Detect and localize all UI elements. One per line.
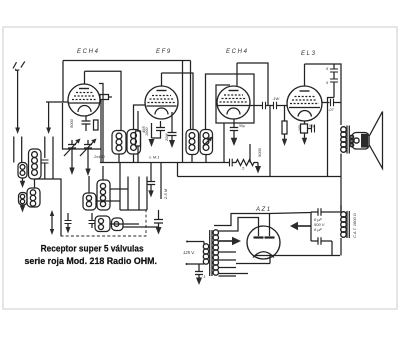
resistor grid EL3 <box>282 106 287 147</box>
wire plate EF9 to IF2 <box>162 73 194 130</box>
svg-text:v. M.1: v. M.1 <box>149 155 160 160</box>
wire box corner to bus <box>100 149 102 163</box>
wire tone to bus <box>328 98 335 177</box>
osc coil C <box>95 216 110 232</box>
ground arrow EF9 screen <box>169 140 175 148</box>
wire filter to B+ <box>331 241 333 256</box>
capacitor filter top <box>311 208 341 216</box>
svg-text:2x450: 2x450 <box>93 154 106 159</box>
ground arrow below L1b <box>20 178 25 188</box>
resistor 25M drop <box>161 163 168 201</box>
speaker cone <box>369 112 383 169</box>
tube EF9 U2 <box>145 73 178 119</box>
wire to EL3 grid <box>277 105 288 107</box>
svg-text:·1: ·1 <box>202 274 206 279</box>
tube ECH4 U1 <box>68 71 100 116</box>
coupling coil L2b <box>19 193 28 206</box>
resistor under ECH4 no1 <box>94 120 99 130</box>
wire IF2 bottoms <box>192 155 206 163</box>
svg-text:.1W: .1W <box>272 96 280 101</box>
wires switch verticals <box>120 163 147 211</box>
wire IF1 secondary to EF9 grid <box>134 105 146 130</box>
heater bus line <box>236 256 270 264</box>
wire field coil top <box>340 205 342 212</box>
wire transformer bottom drop <box>340 154 342 213</box>
capacitor on bus <box>230 159 233 167</box>
resistor R detector <box>232 160 258 166</box>
voice coil <box>350 135 354 147</box>
wire plate EL3 <box>322 102 330 104</box>
svg-text:E C H 4: E C H 4 <box>226 49 248 55</box>
wire anode 1 staircase <box>214 214 270 228</box>
potentiometer arrow <box>50 210 54 235</box>
capacitor sw2 <box>89 213 96 228</box>
wire L1-L2 link <box>34 179 36 188</box>
wires switch horizontals <box>96 189 159 227</box>
wire screen drop ECH4 no2 <box>223 123 225 163</box>
power transformer T1 <box>203 230 218 276</box>
speaker magnet pot <box>352 133 369 150</box>
osc coil B <box>97 180 110 210</box>
svg-text:E L 3: E L 3 <box>301 51 316 57</box>
wire avc long riser <box>182 61 184 163</box>
wire grid box ECH4 no2 <box>206 74 255 130</box>
tube AZ1 U5 rectifier <box>247 226 280 259</box>
tube EL3 U4 <box>287 64 322 121</box>
ground arrow ECH4 no2 cathode <box>231 138 238 146</box>
field coil choke <box>341 211 350 238</box>
variable capacitor CV2 <box>80 139 97 157</box>
svg-text:E C H 4: E C H 4 <box>77 49 99 55</box>
wire grid cap ECH4 no2 <box>237 63 268 106</box>
bus B+ return line <box>178 176 342 178</box>
filter box left wire <box>310 212 312 241</box>
cathode RC EL3 <box>298 121 315 145</box>
capacitor avc left <box>147 163 155 198</box>
wire field coil bottom <box>340 238 342 256</box>
wire avc drop <box>99 84 103 163</box>
capacitor coupling Cb <box>274 102 277 109</box>
capacitor cathode ECH4 no2 <box>230 119 245 138</box>
wire band switch feed <box>35 179 62 236</box>
wire IF1 bottoms to bus <box>119 154 134 163</box>
ground arrow below CV2 <box>85 152 90 176</box>
capacitor tone 1 <box>326 64 338 79</box>
output transformer T2 <box>341 126 350 154</box>
IF transformer 2 primary <box>186 130 199 155</box>
wire plate to transformer <box>334 102 342 104</box>
svg-text:50μ: 50μ <box>239 124 245 128</box>
svg-text:C A T. 1800 Ω: C A T. 1800 Ω <box>352 213 357 238</box>
IF transformer 1 secondary <box>127 130 141 155</box>
svg-text:5000: 5000 <box>257 147 262 157</box>
wire bus riser left <box>177 163 179 177</box>
wire detector node riser <box>269 106 271 177</box>
osc coil A <box>83 193 96 210</box>
mains input top <box>186 241 204 243</box>
svg-text:E F 9: E F 9 <box>156 49 171 55</box>
wire heater tap ends <box>219 275 237 277</box>
mains input bottom <box>186 263 205 265</box>
wire osc coil feeds <box>89 166 103 193</box>
wire top EL3 to output transformer <box>305 64 342 125</box>
resistor R osc grid <box>100 95 112 100</box>
wire B+ line <box>255 255 340 257</box>
capacitor sw1 <box>65 213 72 234</box>
svg-text:160: 160 <box>298 125 302 131</box>
capacitor mains <box>195 264 206 285</box>
svg-text:50μ: 50μ <box>309 124 315 128</box>
wire anode to filter top <box>270 213 312 214</box>
coupling coil L1b <box>18 163 27 179</box>
wire grid ECH4 no1 <box>46 101 69 103</box>
wire antenna pad drop with arrow <box>45 102 53 179</box>
capacitor padder C1 <box>41 160 49 179</box>
svg-text:5000: 5000 <box>69 118 74 128</box>
wire between caps <box>266 105 274 107</box>
capacitor screen EF9 <box>165 112 177 142</box>
ground arrow EF9 cathode <box>149 139 155 147</box>
antenna coil L1 <box>29 149 42 179</box>
capacitor cathode EF9 <box>152 121 166 138</box>
svg-text:A Z 1: A Z 1 <box>255 207 270 213</box>
ground arrow detector <box>255 163 261 174</box>
svg-text:-07: -07 <box>328 107 335 112</box>
wire top bus to ECH4 grid <box>63 61 191 130</box>
capacitor plate EL3 <box>331 99 334 106</box>
capacitor filter bottom <box>311 237 332 245</box>
svg-text:125 V.: 125 V. <box>183 250 195 255</box>
svg-text:8 μF: 8 μF <box>314 227 323 232</box>
svg-text:serie roja Mod. 218 Radio OHM.: serie roja Mod. 218 Radio OHM. <box>25 256 158 267</box>
svg-text:2-5 M: 2-5 M <box>163 188 168 200</box>
osc coil D <box>112 218 124 231</box>
dashed band switch box <box>61 210 146 237</box>
IF transformer 2 secondary <box>200 130 213 155</box>
box around converter section <box>63 99 102 149</box>
heater arrow <box>219 237 242 245</box>
secondary taps <box>219 252 249 274</box>
svg-text:Receptor super 5 válvulas: Receptor super 5 válvulas <box>41 244 144 255</box>
capacitor tone 2 <box>326 79 338 98</box>
ground arrow below L2b <box>20 205 25 213</box>
osc band coil L2 <box>27 188 40 207</box>
ground arrow below CV1 <box>69 152 74 175</box>
variable capacitor CV1 <box>64 139 81 157</box>
wire plate out ECH4 no2 <box>250 105 262 107</box>
wire detector load drop <box>249 144 251 163</box>
tube ECH4 U3 <box>217 63 250 119</box>
IF transformer 1 primary <box>112 131 126 155</box>
svg-text:1000: 1000 <box>145 127 149 136</box>
capacitor under ECH4 no1 <box>69 116 91 131</box>
resistor screen EF9 <box>136 111 150 163</box>
wire plate ECH4 no1 to IF1 <box>85 71 122 131</box>
big left arrow B+ <box>290 222 311 230</box>
antenna <box>13 61 25 162</box>
capacitor sw3 ground <box>154 210 163 235</box>
wire anode 2 staircase <box>219 218 259 232</box>
bus AVC line <box>100 162 229 164</box>
capacitor coupling Ca <box>263 102 266 109</box>
svg-text:20M: 20M <box>165 133 169 142</box>
